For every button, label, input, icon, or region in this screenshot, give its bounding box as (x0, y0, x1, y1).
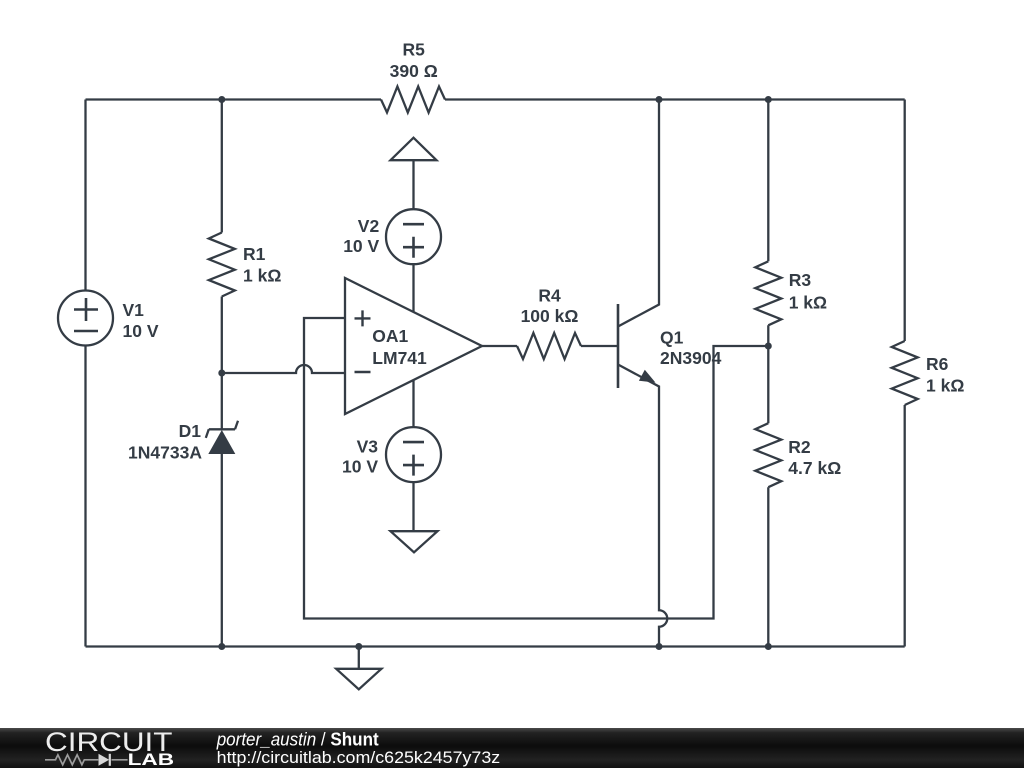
svg-text:1 kΩ: 1 kΩ (243, 265, 281, 285)
svg-text:R5: R5 (403, 39, 426, 59)
svg-text:Q1: Q1 (660, 327, 684, 347)
svg-text:R1: R1 (243, 244, 266, 264)
svg-text:390 Ω: 390 Ω (390, 61, 438, 81)
svg-text:V1: V1 (123, 300, 145, 320)
svg-text:1N4733A: 1N4733A (128, 443, 202, 463)
svg-text:porter_austin / Shunt: porter_austin / Shunt (216, 730, 379, 750)
svg-text:R2: R2 (788, 437, 811, 457)
svg-text:100 kΩ: 100 kΩ (521, 306, 579, 326)
svg-text:LAB: LAB (128, 751, 175, 768)
svg-text:R3: R3 (789, 270, 812, 290)
svg-text:V3: V3 (357, 436, 379, 456)
svg-text:10 V: 10 V (342, 457, 378, 477)
svg-text:V2: V2 (358, 216, 380, 236)
svg-text:10 V: 10 V (123, 321, 159, 341)
svg-text:1 kΩ: 1 kΩ (926, 376, 964, 396)
svg-text:10 V: 10 V (343, 236, 379, 256)
svg-text:1 kΩ: 1 kΩ (789, 293, 827, 313)
svg-text:http://circuitlab.com/c625k245: http://circuitlab.com/c625k2457y73z (217, 748, 501, 767)
svg-text:4.7 kΩ: 4.7 kΩ (788, 458, 841, 478)
svg-text:2N3904: 2N3904 (660, 348, 722, 368)
svg-text:D1: D1 (179, 421, 202, 441)
svg-text:OA1: OA1 (372, 326, 408, 346)
svg-text:LM741: LM741 (372, 348, 427, 368)
svg-text:R4: R4 (538, 286, 561, 306)
svg-text:R6: R6 (926, 354, 949, 374)
